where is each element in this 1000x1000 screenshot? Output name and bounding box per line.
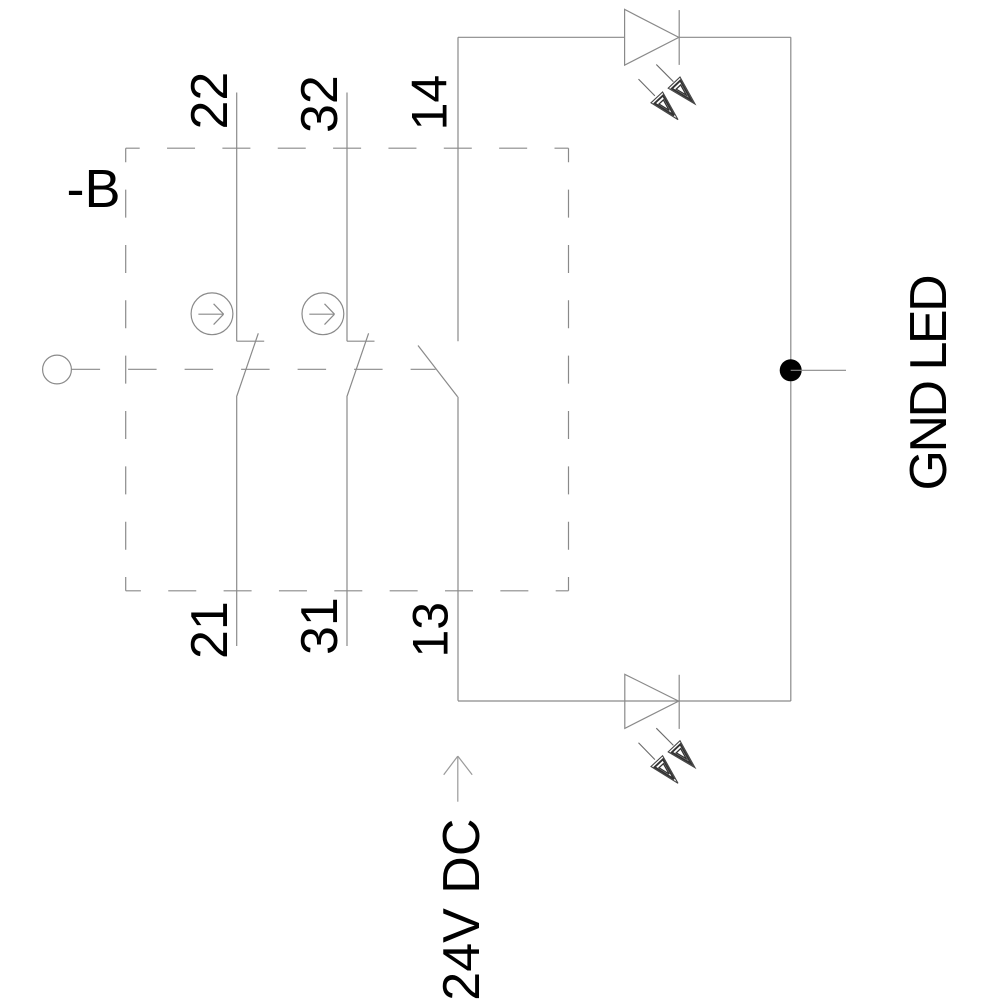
contact 31-32 (NC): [347, 93, 375, 647]
svg-text:14: 14: [402, 75, 458, 131]
actuator plunger circle: [43, 355, 72, 384]
svg-text:22: 22: [181, 72, 239, 130]
contact 13-14 (NO): [418, 37, 458, 701]
wire right side (down from top corner to bottom corner): [790, 37, 792, 701]
LED D1 (top): [625, 9, 680, 65]
svg-text:24V DC: 24V DC: [433, 819, 491, 1000]
svg-text:31: 31: [291, 597, 349, 655]
GND LED stub wire: [791, 369, 846, 371]
enclosure dashed box -B: [126, 148, 569, 591]
wire from LED D1 to top-right corner: [679, 36, 791, 38]
svg-text:21: 21: [181, 601, 239, 659]
wire bottom (13 corner to bottom-right corner): [458, 700, 791, 702]
contact 21-22 (NC): [237, 93, 265, 647]
LED D1 emission arrow 2: [639, 79, 679, 120]
junction node dot: [780, 359, 802, 381]
svg-text:-B: -B: [67, 159, 121, 219]
wire top (14 to LED D1): [458, 36, 625, 38]
actuator dashed link: [72, 368, 436, 370]
LED D2 emission arrow 2: [639, 743, 679, 784]
svg-text:GND LED: GND LED: [900, 276, 958, 491]
LED D1 emission arrow 1: [656, 65, 695, 105]
svg-text:13: 13: [403, 602, 459, 658]
LED D2 (bottom): [625, 674, 679, 729]
LED D2 emission arrow 1: [656, 728, 695, 768]
24V DC supply arrow: [444, 756, 473, 802]
positive-opening symbol (circle arrow) for 31-32: [302, 293, 344, 335]
svg-text:32: 32: [291, 75, 349, 133]
positive-opening symbol (circle arrow) for 21-22: [191, 293, 233, 335]
